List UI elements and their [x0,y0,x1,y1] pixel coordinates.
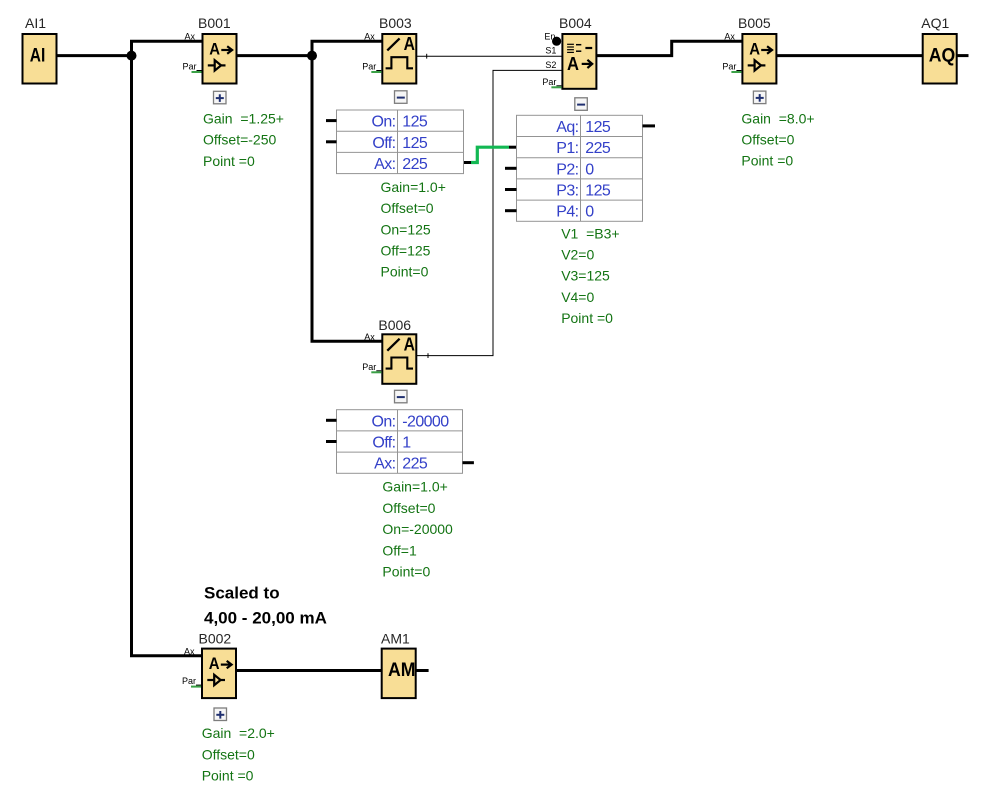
svg-text:0: 0 [585,161,594,178]
svg-text:Gain =1.25+: Gain =1.25+ [203,111,284,127]
svg-text:P4:: P4: [556,204,578,221]
svg-text:Ax: Ax [724,32,735,42]
svg-text:Scaled to: Scaled to [204,584,280,603]
block B003 analog threshold trigger [382,34,416,84]
block AM1 analog marker [382,649,416,699]
svg-text:Point=0: Point=0 [382,564,430,580]
stub B004 table P2 input [505,167,517,170]
wire B004 output to B005 Ax [597,41,742,55]
svg-text:Offset=0: Offset=0 [381,200,434,216]
svg-text:Ax: Ax [184,32,195,42]
svg-text:125: 125 [402,114,428,131]
svg-text:B006: B006 [378,317,411,333]
svg-text:A: A [404,335,415,355]
svg-text:125: 125 [585,119,611,136]
svg-text:225: 225 [585,140,611,157]
stub B004 table P4 input [505,209,517,212]
block AQ1 analog output [923,34,957,84]
svg-text:On=125: On=125 [381,221,431,237]
expand button B001 [214,91,227,104]
wire B003 output to B004 S1 (thin) [417,55,562,57]
wire B006 output up to B004 S2 (thin) [417,70,562,355]
svg-text:Par: Par [542,77,556,87]
stub B003 table Ax output [462,161,471,164]
svg-text:Off:: Off: [372,135,395,152]
block B005 analog amplifier [742,34,776,84]
svg-text:V1 =B3+: V1 =B3+ [561,225,619,241]
svg-text:Ax:: Ax: [374,456,395,473]
collapse button B004 [575,98,588,111]
wire AM1 output stub [417,669,429,672]
stub B003 table On input [326,119,337,122]
junction node on AI1 wire [127,51,137,61]
svg-text:Gain=1.0+: Gain=1.0+ [381,179,446,195]
svg-text:AM: AM [388,660,416,681]
svg-text:B003: B003 [379,15,412,31]
svg-text:On:: On: [372,413,396,430]
svg-text:Point =0: Point =0 [202,768,254,784]
svg-text:A: A [209,39,220,58]
svg-text:Off:: Off: [372,435,395,452]
svg-text:125: 125 [585,183,611,200]
svg-text:1: 1 [402,435,411,452]
svg-text:V4=0: V4=0 [561,289,594,305]
block AI1 analog input [23,34,57,84]
svg-text:AM1: AM1 [381,630,410,646]
wire B002 output to AM1 [237,669,382,672]
svg-text:AQ1: AQ1 [921,15,949,31]
stub B003 table Off input [326,140,337,143]
svg-text:B002: B002 [199,630,232,646]
block B006 analog threshold trigger [382,334,416,384]
wire vertical trunk from B001 Ax level down to B002 Ax [132,41,203,656]
svg-text:P2:: P2: [556,161,578,178]
svg-text:Off=1: Off=1 [382,542,417,558]
svg-text:AI: AI [30,46,46,67]
junction node on B001 output wire [307,51,317,61]
stub B006 table On input [326,419,337,422]
svg-text:P3:: P3: [556,183,578,200]
green wire B003 Ax to B004 P1 [471,147,509,162]
block B004 analog multiplexer [562,34,596,89]
svg-text:Ax: Ax [184,646,195,656]
svg-text:S2: S2 [545,60,556,70]
svg-text:4,00 - 20,00 mA: 4,00 - 20,00 mA [204,609,327,628]
svg-text:Par: Par [722,62,736,72]
svg-text:Par: Par [182,62,196,72]
svg-text:Par: Par [182,676,196,686]
svg-text:225: 225 [402,156,428,173]
svg-text:Par: Par [362,62,376,72]
svg-text:Point =0: Point =0 [561,310,613,326]
svg-text:AQ: AQ [929,46,956,67]
svg-text:P1:: P1: [556,140,578,157]
svg-text:On:: On: [372,114,396,131]
wire junction trunk to B001 Ax input [130,40,202,43]
svg-text:Offset=0: Offset=0 [741,132,794,148]
svg-text:A: A [749,39,760,58]
svg-text:225: 225 [402,456,428,473]
svg-text:Ax:: Ax: [374,156,395,173]
parameter table B006 [337,410,463,474]
collapse button B006 [395,390,408,403]
svg-text:Point =0: Point =0 [741,153,793,169]
svg-text:0: 0 [585,204,594,221]
svg-text:On=-20000: On=-20000 [382,521,453,537]
svg-text:Gain =2.0+: Gain =2.0+ [202,725,275,741]
wire AQ1 output stub [957,54,969,57]
svg-text:B004: B004 [559,15,592,31]
svg-text:Gain =8.0+: Gain =8.0+ [741,110,814,126]
negation dot on En [552,37,561,46]
block B002 analog amplifier [202,649,236,699]
svg-text:A: A [567,54,579,74]
svg-text:-20000: -20000 [402,413,449,430]
svg-text:125: 125 [402,135,428,152]
block B001 analog amplifier [203,34,237,84]
svg-text:Off=125: Off=125 [381,243,431,259]
svg-text:B005: B005 [738,15,771,31]
svg-text:B001: B001 [198,15,231,31]
svg-text:Offset=-250: Offset=-250 [203,132,277,148]
wire AI1 output to junction [57,54,133,57]
stub B004 table Aq output [643,124,656,127]
svg-text:Point =0: Point =0 [203,153,255,169]
svg-text:S1: S1 [545,46,556,56]
svg-text:Par: Par [362,362,376,372]
svg-text:A: A [209,654,220,673]
tick on B006 output wire [427,353,429,358]
svg-text:Ax: Ax [364,32,375,42]
svg-text:Ax: Ax [364,332,375,342]
svg-text:Gain=1.0+: Gain=1.0+ [382,479,447,495]
svg-text:Offset=0: Offset=0 [382,500,435,516]
svg-text:V2=0: V2=0 [561,247,594,263]
stub B004 table P1 input [509,146,517,149]
svg-text:AI1: AI1 [25,15,46,31]
svg-text:Aq:: Aq: [556,119,578,136]
expand button B005 [753,91,766,104]
stub B006 table Ax output [463,461,474,464]
svg-text:Point=0: Point=0 [381,264,429,280]
svg-text:V3=125: V3=125 [561,268,610,284]
parameter table B003 [337,110,464,174]
expand button B002 [214,708,227,721]
wire trunk 2 to B003 Ax input [311,40,383,43]
collapse button B003 [395,91,408,104]
wire vertical trunk 2 down to B006 Ax [312,41,382,341]
wire B001 output to junction 2 [237,54,313,57]
wire B005 output to AQ1 [777,54,923,57]
svg-text:Offset=0: Offset=0 [202,746,255,762]
stub B006 table Off input [326,440,337,443]
svg-text:A: A [404,34,415,54]
stub B004 table P3 input [505,188,517,191]
parameter table B004 [517,115,643,221]
tick on B003 output wire [426,54,428,59]
